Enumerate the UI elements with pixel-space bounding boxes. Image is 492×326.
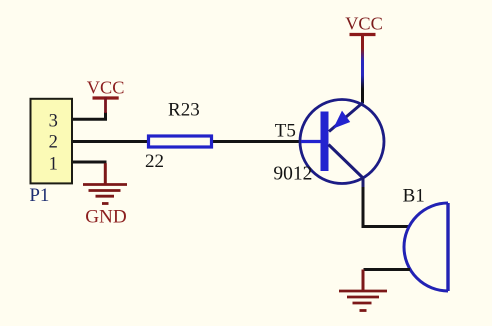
svg-text:T5: T5 <box>275 121 296 142</box>
svg-text:P1: P1 <box>29 185 49 206</box>
svg-text:1: 1 <box>49 154 58 174</box>
net label VCC (left) <box>87 77 125 97</box>
T5 base bar <box>321 112 329 172</box>
designator label R23 <box>168 100 200 121</box>
net label VCC (right) <box>345 14 383 34</box>
value label 9012 <box>273 164 312 185</box>
pin number 1 <box>49 154 58 174</box>
resistor R23 <box>149 136 212 147</box>
wire P1 pin3 to VCC power stub <box>72 112 106 119</box>
ground symbol GND at P1 pin1 <box>83 163 127 203</box>
svg-text:3: 3 <box>49 111 58 131</box>
wire P1 pin1 to ground stub <box>72 161 107 164</box>
wire T5 collector to buzzer B1 <box>363 178 410 227</box>
buzzer B1 <box>404 203 448 291</box>
value label 22 <box>145 151 164 172</box>
power symbol VCC at P1 pin3 <box>93 97 119 114</box>
transistor T5 body circle <box>300 100 384 184</box>
svg-text:R23: R23 <box>168 100 200 121</box>
net label GND <box>85 207 127 228</box>
svg-text:VCC: VCC <box>345 14 383 34</box>
pin number 3 <box>49 111 58 131</box>
T5 emitter line <box>329 103 363 132</box>
wire B1 to ground <box>364 268 411 271</box>
wire resistor R23 to T5 base pin <box>205 140 302 143</box>
svg-text:2: 2 <box>49 133 58 153</box>
designator label T5 <box>275 121 296 142</box>
svg-text:B1: B1 <box>403 185 425 206</box>
svg-text:22: 22 <box>145 151 164 172</box>
ground symbol at B1 <box>339 270 387 311</box>
T5 base pin <box>301 140 321 143</box>
svg-text:VCC: VCC <box>87 77 125 97</box>
T5 collector line <box>329 145 364 179</box>
wire P1 pin2 to resistor R23 <box>72 140 160 143</box>
wire VCC to T5 emitter (red-blue-black blend) <box>361 33 364 103</box>
designator label P1 <box>29 185 49 206</box>
power symbol VCC at T5 emitter <box>350 33 376 36</box>
svg-text:GND: GND <box>85 207 127 228</box>
designator label B1 <box>403 185 425 206</box>
pin number 2 <box>49 133 58 153</box>
T5 emitter arrow (PNP, points to base) <box>333 111 350 129</box>
connector P1 <box>31 99 73 184</box>
svg-text:9012: 9012 <box>273 164 312 185</box>
